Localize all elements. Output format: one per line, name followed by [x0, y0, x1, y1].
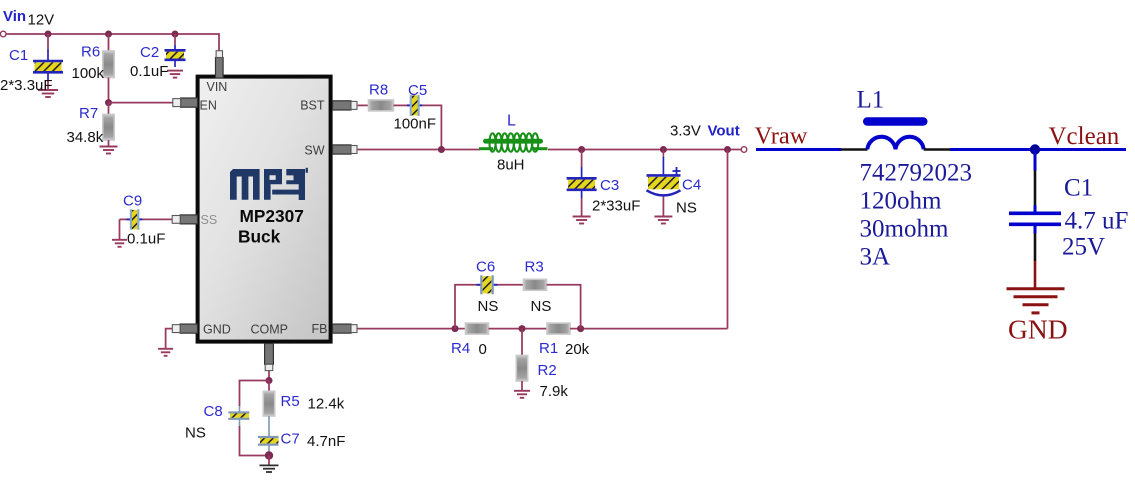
label R5 value — [308, 396, 345, 413]
node J13 — [265, 451, 273, 459]
svg-text:MP2307: MP2307 — [240, 206, 304, 226]
svg-text:C9: C9 — [123, 193, 142, 210]
capacitor C9 — [127, 209, 143, 229]
label 12V — [28, 12, 55, 29]
svg-text:NS: NS — [185, 425, 206, 442]
ground C1 ground — [38, 90, 58, 97]
svg-text:GND: GND — [1008, 314, 1068, 345]
label Vraw — [755, 123, 808, 150]
label C2 label — [140, 44, 159, 61]
svg-text:FB: FB — [312, 322, 328, 336]
label R6 value — [72, 65, 105, 82]
label 3.3V — [670, 123, 701, 140]
svg-text:C7: C7 — [281, 431, 300, 448]
capacitor C4 — [647, 150, 681, 196]
label R1 value — [565, 341, 590, 358]
node J9 — [452, 325, 459, 332]
label C1 label — [9, 47, 28, 64]
label VIN pin label — [207, 80, 228, 94]
label C3 label — [600, 177, 619, 194]
wire C8 wire — [240, 381, 270, 407]
label COMP pin label — [251, 322, 289, 336]
svg-text:30mohm: 30mohm — [860, 216, 949, 243]
pin EN — [173, 98, 198, 107]
svg-text:3.3V: 3.3V — [670, 123, 701, 140]
ground COMP ground — [260, 465, 279, 472]
wire R6 top lead — [108, 34, 110, 51]
capacitor C2 — [165, 45, 186, 67]
capacitor C3 — [567, 167, 597, 198]
svg-text:100k: 100k — [72, 65, 105, 82]
wire R5 top lead — [268, 381, 270, 392]
label C1 value — [0, 77, 53, 94]
wire C6 wire a — [455, 285, 477, 329]
inductor L — [479, 133, 548, 151]
inductor L1 — [863, 117, 928, 149]
label R4 label — [451, 340, 470, 357]
svg-text:C2: C2 — [140, 44, 159, 61]
svg-text:SW: SW — [304, 144, 324, 158]
pin SW — [333, 145, 358, 154]
wire SS wire — [143, 218, 173, 220]
label R2 value — [540, 383, 569, 400]
ground GND (output) — [1007, 289, 1065, 313]
svg-text:C1: C1 — [9, 47, 28, 64]
resistor R8 — [369, 100, 394, 111]
svg-text:0.1uF: 0.1uF — [127, 231, 165, 248]
svg-text:VIN: VIN — [207, 80, 228, 94]
label Buck — [238, 227, 281, 247]
resistor R7 — [103, 115, 114, 141]
svg-text:Vin: Vin — [3, 8, 26, 25]
capacitor C5 — [407, 95, 422, 116]
node J8 — [724, 146, 731, 153]
wire C3 top lead — [581, 150, 583, 168]
wire comp gnd lead — [268, 456, 270, 466]
svg-text:Buck: Buck — [238, 227, 281, 247]
ground R2 ground — [514, 391, 530, 398]
wire C6 wire c — [547, 285, 581, 329]
svg-text:R1: R1 — [539, 340, 558, 357]
node output terminal — [741, 147, 747, 153]
label R7 label — [79, 105, 98, 122]
svg-text:C6: C6 — [476, 259, 495, 276]
wire R2 top lead — [521, 329, 523, 356]
svg-text:C1: C1 — [1064, 175, 1093, 202]
svg-text:7.9k: 7.9k — [540, 383, 569, 400]
node J1 — [45, 31, 52, 38]
label L value — [497, 157, 525, 174]
svg-text:L: L — [507, 113, 516, 130]
wire C9 gnd stem — [119, 219, 121, 239]
wire C3 gnd lead — [581, 198, 583, 216]
svg-text:R8: R8 — [369, 82, 388, 99]
wire GND pin wire — [166, 329, 173, 349]
label C5 label — [408, 82, 427, 99]
label C1f value — [1065, 208, 1129, 235]
wire FB wire c — [570, 328, 728, 330]
svg-text:20k: 20k — [565, 341, 590, 358]
wire L1 right pin — [924, 148, 950, 151]
label C2 value — [130, 63, 168, 80]
wire C9 left lead — [120, 218, 127, 220]
pin FB — [333, 324, 358, 333]
ground R7 ground — [100, 147, 118, 154]
svg-text:120ohm: 120ohm — [860, 188, 943, 215]
node Vclean node — [1030, 144, 1040, 154]
wire Vraw wire — [756, 148, 841, 151]
capacitor C6 — [477, 275, 498, 294]
svg-text:Vclean: Vclean — [1049, 123, 1120, 150]
wire SW wire a — [358, 149, 480, 151]
label L1 pn — [860, 160, 973, 187]
capacitor C8 — [228, 406, 249, 426]
svg-text:C8: C8 — [204, 403, 223, 420]
wire R2 bot lead — [521, 381, 523, 391]
wire BST wire b — [394, 104, 408, 106]
ground C4 ground — [654, 217, 672, 224]
wire R7 top lead — [108, 103, 110, 115]
wire SW wire b — [548, 149, 741, 151]
svg-text:R4: R4 — [451, 340, 470, 357]
svg-text:2*33uF: 2*33uF — [592, 198, 640, 215]
svg-text:COMP: COMP — [251, 322, 289, 336]
label C6 label — [476, 259, 495, 276]
wire Vclean wire — [950, 148, 1126, 151]
pin BST — [333, 101, 358, 110]
label R3 value — [531, 298, 552, 315]
wire gnd stem — [1034, 261, 1037, 289]
ground C3 ground — [573, 217, 591, 224]
capacitor C1 (output filter) — [1009, 150, 1061, 262]
wire C4 gnd lead — [662, 197, 664, 217]
svg-text:C4: C4 — [682, 177, 701, 194]
label C4 value — [676, 200, 697, 217]
label C8 value — [185, 425, 206, 442]
wire C2 top lead — [174, 34, 176, 45]
wire C8 wire b — [240, 426, 270, 456]
node J7 — [660, 146, 667, 153]
op-amp U1 MP2307 body — [198, 77, 331, 342]
label R8 label — [369, 82, 388, 99]
pin VIN — [216, 51, 224, 78]
svg-text:12V: 12V — [28, 12, 55, 29]
label C1f label — [1064, 175, 1093, 202]
label C8 label — [204, 403, 223, 420]
node J6 — [578, 146, 585, 153]
resistor R6 — [103, 51, 114, 78]
ground C9 ground — [112, 240, 127, 247]
svg-text:25V: 25V — [1062, 234, 1105, 261]
label C6 value — [478, 298, 499, 315]
svg-text:12.4k: 12.4k — [308, 396, 345, 413]
svg-text:SS: SS — [201, 213, 218, 227]
svg-text:Vout: Vout — [708, 123, 740, 140]
label C3 value — [592, 198, 640, 215]
node J11 — [577, 325, 584, 332]
node J12 — [266, 377, 273, 384]
svg-text:C5: C5 — [408, 82, 427, 99]
svg-text:4.7 uF: 4.7 uF — [1065, 208, 1129, 235]
capacitor C7 — [258, 416, 279, 456]
label GND label — [1008, 314, 1068, 345]
node J5 — [438, 146, 445, 153]
svg-text:R2: R2 — [538, 362, 557, 379]
label R4 value — [479, 341, 487, 358]
label R1 label — [539, 340, 558, 357]
label MP2307 — [240, 206, 304, 226]
node J4 — [105, 99, 112, 106]
node input terminal — [0, 31, 6, 37]
wire input rail — [6, 34, 219, 52]
svg-text:EN: EN — [200, 99, 217, 113]
label Vout — [708, 123, 740, 140]
pin SS — [172, 215, 197, 224]
wire R6 bot lead — [108, 78, 110, 103]
label GND pin label — [203, 322, 231, 336]
svg-text:L1: L1 — [857, 87, 885, 114]
svg-text:R5: R5 — [281, 393, 300, 410]
resistor R5 — [263, 391, 274, 416]
label SW pin label — [304, 144, 324, 158]
label R5 label — [281, 393, 300, 410]
label C7 value — [307, 433, 345, 450]
resistor R2 — [516, 356, 527, 382]
label C9 value — [127, 231, 165, 248]
resistor R4 — [466, 323, 489, 334]
ground IC ground — [158, 349, 173, 356]
wire BST wire a — [358, 104, 369, 106]
label R3 label — [525, 259, 544, 276]
svg-text:BST: BST — [300, 99, 325, 113]
svg-text:NS: NS — [531, 298, 552, 315]
svg-text:8uH: 8uH — [497, 157, 525, 174]
label EN pin label — [200, 99, 217, 113]
label C7 label — [281, 431, 300, 448]
svg-text:0.1uF: 0.1uF — [130, 63, 168, 80]
label L1 cur — [860, 244, 891, 271]
label FB pin label — [312, 322, 328, 336]
label C1f volt — [1062, 234, 1105, 261]
svg-text:R6: R6 — [81, 44, 100, 61]
svg-text:100nF: 100nF — [394, 116, 437, 133]
label L1 z — [860, 188, 943, 215]
label BST pin label — [300, 99, 325, 113]
svg-text:0: 0 — [479, 341, 487, 358]
svg-text:742792023: 742792023 — [860, 160, 973, 187]
label L1 dcr — [860, 216, 949, 243]
svg-text:NS: NS — [676, 200, 697, 217]
wire fb riser — [727, 150, 729, 329]
label R6 label — [81, 44, 100, 61]
svg-text:3A: 3A — [860, 244, 891, 271]
wire L1 left pin — [841, 148, 868, 151]
label C5 value — [394, 116, 437, 133]
node J2 — [105, 31, 112, 38]
svg-text:4.7nF: 4.7nF — [307, 433, 345, 450]
wire EN wire — [109, 102, 173, 104]
node J10 — [519, 325, 526, 332]
node J3 — [172, 31, 179, 38]
wire FB wire b — [489, 328, 548, 330]
wire C1 top lead — [47, 34, 49, 49]
wire BST wire c — [422, 105, 441, 149]
resistor R1 — [547, 323, 570, 334]
wire R7 bot lead — [108, 140, 110, 146]
wire COMP lead — [268, 371, 270, 381]
resistor R3 — [524, 279, 547, 290]
label L label — [507, 113, 516, 130]
svg-text:34.8k: 34.8k — [67, 129, 104, 146]
label R7 value — [67, 129, 104, 146]
label C9 label — [123, 193, 142, 210]
svg-text:R7: R7 — [79, 105, 98, 122]
label C4 label — [682, 177, 701, 194]
svg-text:C3: C3 — [600, 177, 619, 194]
logo MPS — [230, 168, 308, 200]
wire C1 gnd lead — [47, 80, 49, 90]
pin GND — [172, 324, 197, 333]
capacitor C1 — [33, 49, 63, 80]
label Vclean — [1049, 123, 1120, 150]
label L1 label — [857, 87, 885, 114]
label SS pin label — [201, 213, 218, 227]
label Vin — [3, 8, 26, 25]
svg-text:2*3.3uF: 2*3.3uF — [0, 77, 53, 94]
wire C6 wire b — [498, 284, 524, 286]
svg-text:R3: R3 — [525, 259, 544, 276]
svg-text:GND: GND — [203, 322, 231, 336]
svg-text:NS: NS — [478, 298, 499, 315]
svg-text:Vraw: Vraw — [755, 123, 808, 150]
ground C2 ground — [167, 71, 183, 78]
label R2 label — [538, 362, 557, 379]
pin COMP — [265, 344, 274, 371]
wire FB wire a — [357, 328, 465, 330]
